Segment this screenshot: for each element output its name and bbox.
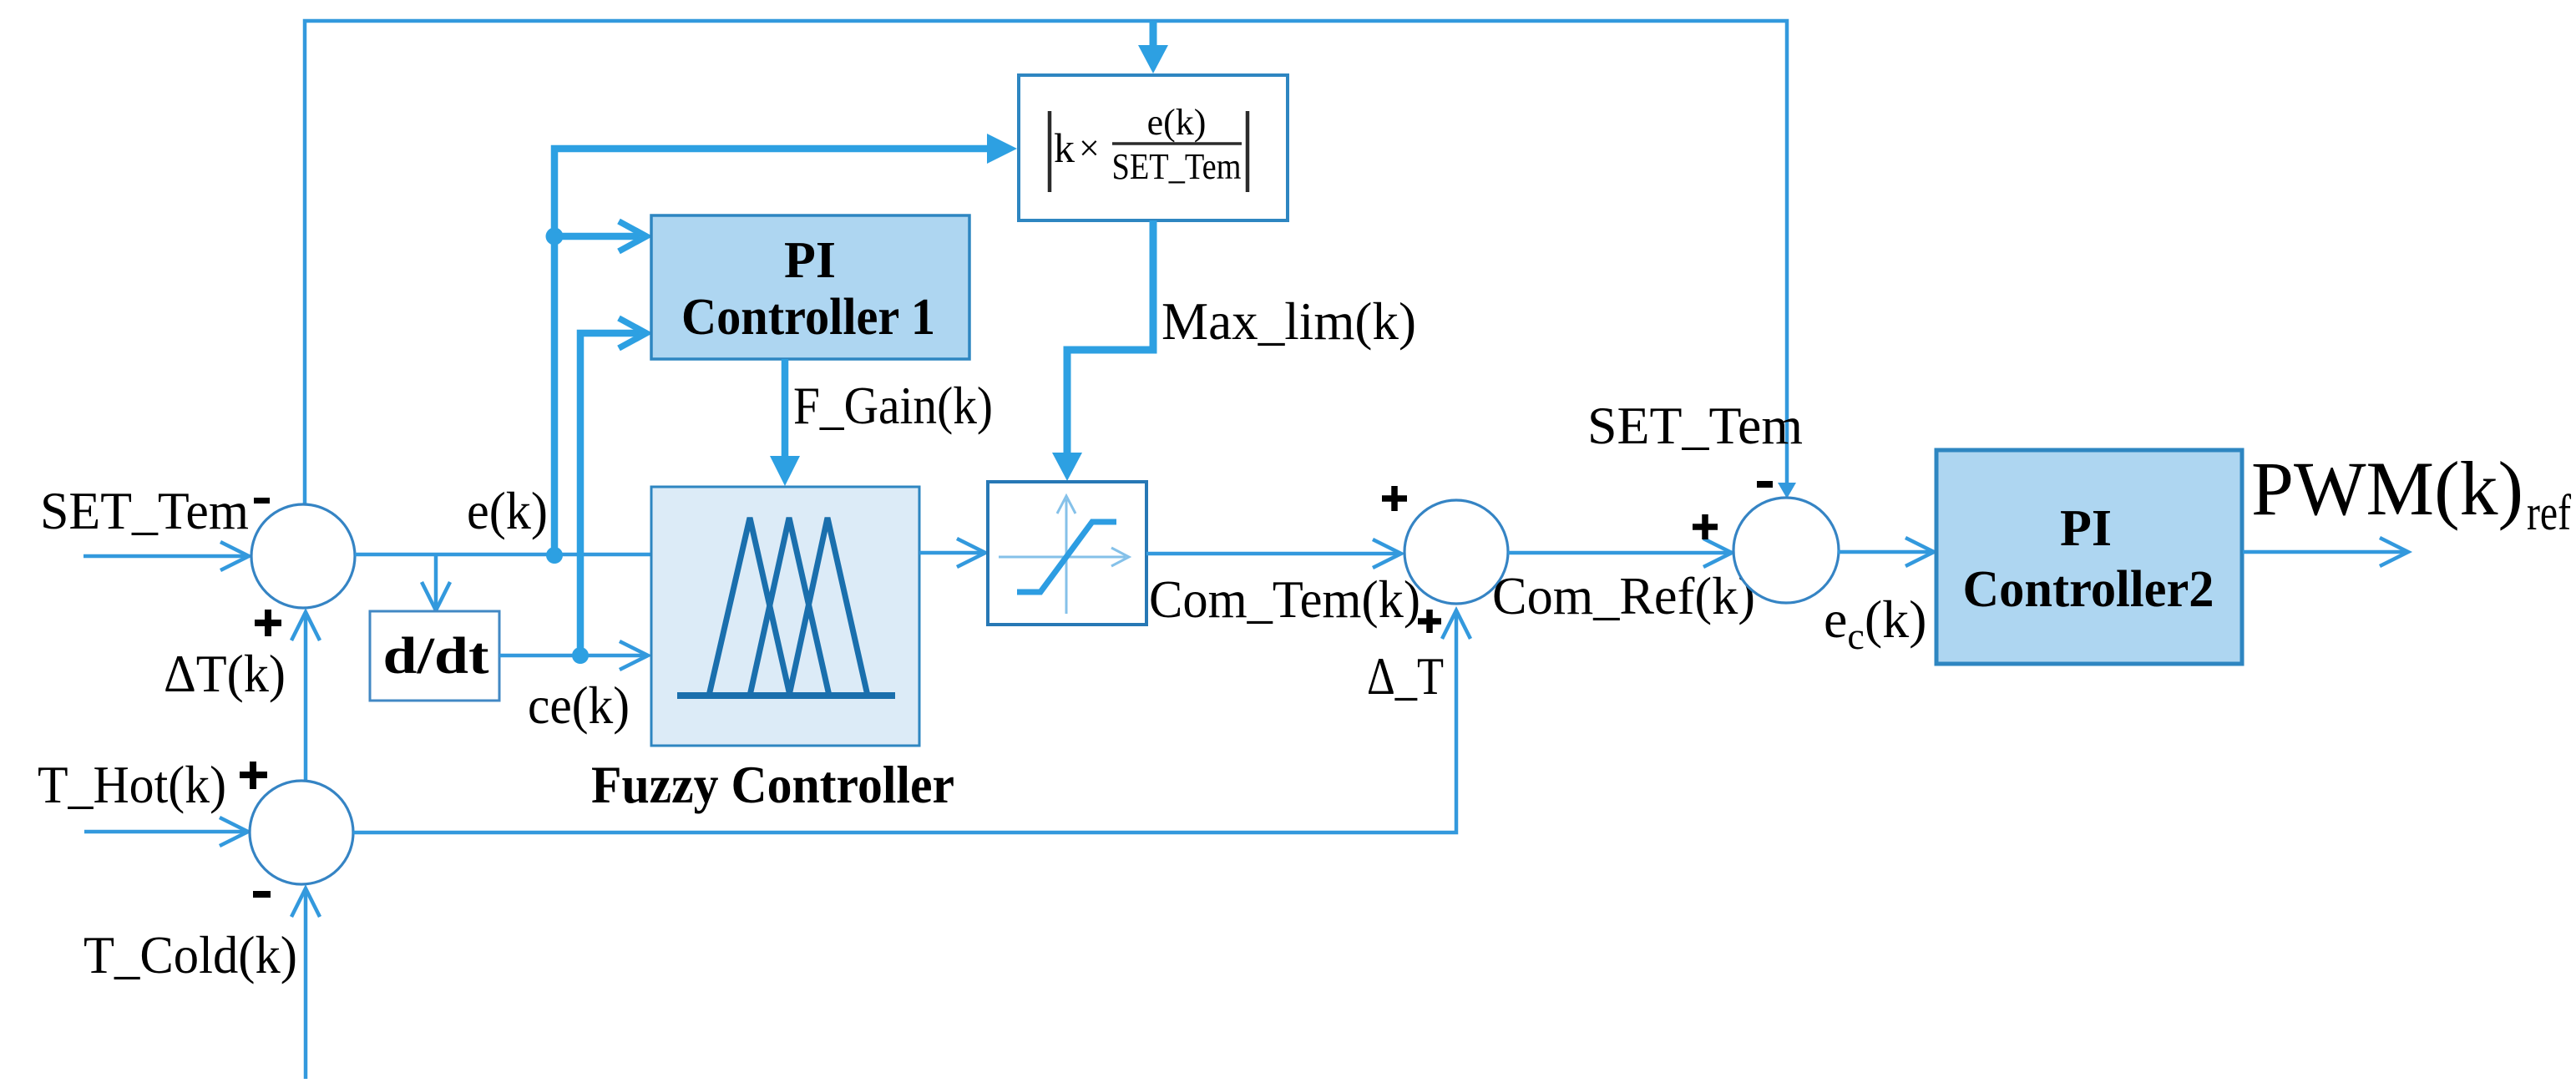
summing junction S2 [250, 781, 353, 884]
minus sign at S2 bottom-left [253, 891, 271, 898]
svg-text:ce(k): ce(k) [528, 676, 630, 735]
svg-text:Com_Tem(k): Com_Tem(k) [1149, 569, 1420, 629]
wire d/dt output ce(k) into Fuzzy Controller [499, 654, 646, 658]
membership triangle 1 [709, 518, 790, 696]
formula right bar [1246, 111, 1250, 192]
formula fraction bar [1112, 142, 1242, 145]
wire top feedback line from node above summing junction S1 to summing junction S4 [305, 21, 1787, 504]
wire S3 output Com_Ref(k) into summing junction S4 [1508, 551, 1728, 555]
minus sign at S1 top-left [254, 498, 270, 504]
wire T_Hot(k) input into summing junction S2 [84, 830, 247, 834]
wire thick riser from e(k) node up and right into abs-limit block [554, 149, 999, 555]
formula left bar [1048, 111, 1052, 192]
saturation horizontal axis [999, 556, 1126, 559]
node junction dot on e(k) line [546, 547, 563, 564]
svg-text:PWM(k): PWM(k) [2251, 446, 2523, 531]
wire Max_lim(k) from abs-limit block down into saturation block [1067, 220, 1153, 461]
wire T_Cold(k) input from bottom edge into S2 (minus input) [304, 888, 308, 1079]
svg-text:T_Cold(k): T_Cold(k) [84, 925, 297, 984]
svg-text:e(k): e(k) [1147, 102, 1207, 143]
wire thick stub from top line down into abs-limit block [1150, 21, 1157, 52]
wire saturation output Com_Tem(k) into summing junction S3 [1146, 552, 1398, 556]
wire S2 output across to vertical riser into summing junction S3 (Delta_T path) [353, 610, 1456, 832]
PI Controller2 block [1936, 450, 2242, 664]
membership triangle 3 [789, 518, 868, 696]
wire arrowhead into summing junction S4 top (minus input) [1778, 483, 1796, 498]
svg-text:PI: PI [784, 232, 836, 289]
svg-text:SET_Tem: SET_Tem [40, 481, 249, 540]
wire S4 output e_c(k) into PI Controller2 [1838, 550, 1931, 554]
svg-text:d/dt: d/dt [383, 628, 489, 685]
svg-text:Max_lim(k): Max_lim(k) [1161, 291, 1416, 351]
plus sign at S1 bottom-left [255, 610, 281, 636]
svg-text:ref: ref [2527, 485, 2571, 540]
svg-text:×: × [1079, 128, 1100, 169]
wire Fuzzy Controller output into saturation block [919, 551, 982, 555]
node junction dot on riser branching to PI Controller 1 upper input [546, 228, 564, 245]
svg-text:Fuzzy Controller: Fuzzy Controller [591, 755, 954, 814]
wire main error line e(k) from S1 to Fuzzy Controller [355, 553, 651, 557]
plus sign at S3 top-left [1382, 486, 1407, 511]
PI Controller 1 block [651, 215, 969, 359]
membership triangle 2 [750, 518, 829, 696]
plus sign at S3 bottom (Delta_T input) [1418, 610, 1441, 633]
summing junction S3 [1404, 500, 1508, 604]
summing junction S4 [1733, 498, 1839, 603]
svg-text:SET_Tem: SET_Tem [1587, 396, 1803, 455]
wire thick riser from ce(k) node up into PI Controller 1 lower input [580, 333, 640, 655]
svg-text:Com_Ref(k): Com_Ref(k) [1492, 566, 1755, 625]
plus sign at S2 top-left [240, 762, 267, 789]
minus sign at S4 top [1757, 481, 1773, 488]
svg-text:e(k): e(k) [467, 481, 548, 540]
wire branch into PI Controller 1 upper input [554, 233, 640, 240]
saturation vertical axis [1065, 499, 1068, 614]
svg-text:Controller 1: Controller 1 [681, 289, 935, 346]
svg-text:T_Hot(k): T_Hot(k) [38, 755, 226, 814]
plus sign at S4 left [1693, 514, 1718, 539]
Fuzzy Controller block [651, 487, 919, 746]
abs-limit block |k x e(k)/SET_Tem| [1019, 75, 1288, 220]
svg-text:ΔT(k): ΔT(k) [164, 644, 286, 703]
saturation block [988, 482, 1146, 625]
svg-text:Controller2: Controller2 [1963, 561, 2214, 618]
wire DeltaT(k) from summing junction S2 up into S1 (plus input) [304, 612, 308, 781]
wire PWM(k)ref output [2243, 550, 2405, 554]
svg-text:k: k [1054, 124, 1075, 171]
node junction dot on ce(k) line [572, 647, 589, 664]
wire SET_Tem input into summing junction S1 [84, 554, 248, 559]
svg-text:F_Gain(k): F_Gain(k) [793, 376, 993, 435]
wire branch down into d/dt block [434, 554, 438, 607]
svg-text:ec(k): ec(k) [1824, 590, 1926, 657]
membership baseline [677, 692, 895, 699]
summing junction S1 [251, 504, 355, 608]
svg-text:SET_Tem: SET_Tem [1112, 146, 1242, 187]
svg-text:PI: PI [2060, 500, 2112, 557]
saturation curve [1017, 522, 1116, 592]
svg-text:Δ_T: Δ_T [1367, 646, 1444, 706]
d/dt block [370, 611, 499, 701]
wire F_Gain(k) from PI Controller 1 down into Fuzzy Controller [782, 359, 789, 468]
